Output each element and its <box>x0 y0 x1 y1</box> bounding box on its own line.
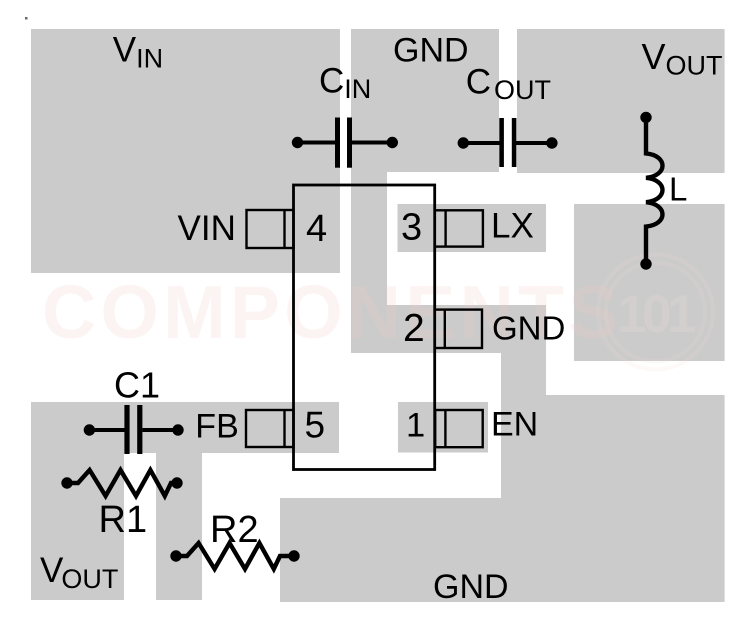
copper plane GND top (net GND) <box>351 29 499 172</box>
junction dot <box>458 137 469 148</box>
plate <box>335 118 340 168</box>
junction dot <box>61 477 72 488</box>
copper block switch node under L (net LX) <box>574 204 725 361</box>
wire and coil <box>646 117 663 264</box>
junction dot <box>172 424 183 435</box>
wire <box>463 141 500 145</box>
junction dot <box>640 258 651 269</box>
wire <box>516 141 552 145</box>
copper GND column under IC (net GND) <box>351 171 387 306</box>
plate <box>137 405 142 454</box>
svg-text:L: L <box>669 171 687 208</box>
watermark circle inner <box>606 263 705 362</box>
pad pin 4 <box>247 210 294 248</box>
copper block VOUT bottom left (net VOUT) <box>31 402 124 600</box>
speck artifact <box>25 17 28 20</box>
svg-text:VIN: VIN <box>178 209 236 248</box>
pad pin 3 <box>435 210 483 246</box>
capacitor COUT <box>458 118 558 167</box>
copper strip FB (net FB) <box>31 402 339 453</box>
copper strip EN (net EN) <box>398 402 488 453</box>
copper plane GND bottom left extension (net GND) <box>280 498 502 602</box>
pad pin 5 <box>246 410 294 447</box>
svg-text:3: 3 <box>401 207 422 249</box>
copper column FB to R2 (net FB) <box>156 453 202 600</box>
svg-text:C1: C1 <box>114 365 160 406</box>
wire <box>352 141 393 145</box>
svg-text:5: 5 <box>305 405 326 446</box>
capacitor C1 <box>84 405 184 454</box>
svg-text:4: 4 <box>306 208 327 250</box>
capacitor CIN <box>292 118 398 168</box>
junction dot <box>84 424 95 435</box>
wire <box>298 141 336 145</box>
IC U1 outline <box>294 185 435 470</box>
junction dot <box>292 137 303 148</box>
junction dot <box>387 137 398 148</box>
svg-text:GND: GND <box>393 32 469 70</box>
svg-text:1: 1 <box>406 407 425 445</box>
junction dot <box>288 550 299 561</box>
copper plane VIN (net VIN) <box>31 29 340 273</box>
plate <box>499 118 504 167</box>
svg-text:GND: GND <box>433 568 509 606</box>
svg-text:R2: R2 <box>210 509 259 551</box>
copper GND connector column (net GND) <box>501 352 546 396</box>
resistor R1 <box>61 470 182 496</box>
plate <box>512 118 517 167</box>
svg-text:2: 2 <box>403 307 425 350</box>
junction dot <box>170 550 181 561</box>
svg-text:EN: EN <box>491 406 538 444</box>
wire and zigzag <box>176 543 294 569</box>
svg-text:R1: R1 <box>99 499 148 541</box>
pad pin 1 <box>435 410 483 447</box>
wire <box>89 428 125 432</box>
resistor R2 <box>170 543 299 569</box>
wire and zigzag <box>67 470 177 496</box>
inductor L <box>640 112 662 270</box>
plate <box>124 405 129 454</box>
copper strip pin2 GND (net GND) <box>351 305 546 353</box>
wire <box>142 428 178 432</box>
svg-text:GND: GND <box>492 310 565 347</box>
svg-text:101: 101 <box>617 285 695 344</box>
copper plane GND bottom right (net GND) <box>501 395 725 602</box>
watermark circle outer <box>598 255 713 370</box>
copper strip LX (net LX) <box>398 204 547 252</box>
svg-text:FB: FB <box>195 408 238 446</box>
junction dot <box>640 112 651 123</box>
plate <box>347 118 352 168</box>
svg-text:LX: LX <box>491 207 534 246</box>
junction dot <box>171 477 182 488</box>
copper plane VOUT (net VOUT) <box>517 29 725 173</box>
pad pin 2 <box>435 310 482 348</box>
junction dot <box>546 137 557 148</box>
